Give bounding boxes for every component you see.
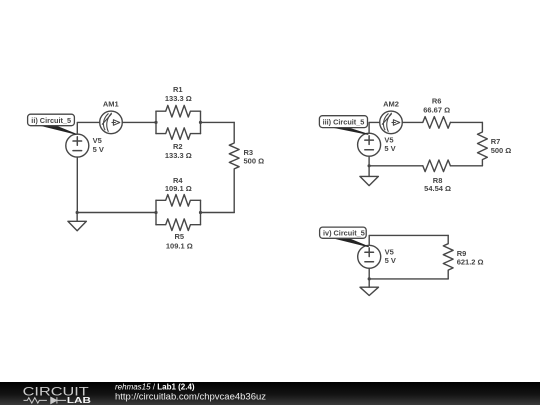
ground (iii) (360, 166, 379, 186)
wire V5(ii) bottom (76, 157, 78, 212)
wire R8 to junction (iii) (369, 165, 423, 167)
svg-text:V5: V5 (93, 136, 102, 145)
callout iii) Circuit_5 (319, 116, 368, 135)
resistor R8 (423, 160, 451, 172)
svg-text:iv) Circuit_5: iv) Circuit_5 (323, 229, 365, 238)
wire R3 bottom to R4R5 (201, 212, 235, 214)
wire V5(iv) bottom (368, 268, 370, 279)
ammeter AM2 (380, 111, 403, 134)
svg-text:109.1 Ω: 109.1 Ω (166, 242, 193, 251)
svg-text:V5: V5 (385, 247, 394, 256)
voltage source V5 (ii) (66, 134, 89, 157)
wire V5(ii) top to AM1 (77, 122, 99, 134)
svg-text:LAB: LAB (67, 395, 91, 405)
svg-text:R6: R6 (432, 96, 442, 105)
svg-text:V5: V5 (384, 135, 393, 144)
resistor R7 (478, 122, 488, 165)
callout ii) Circuit_5 (28, 114, 77, 134)
svg-text:http://circuitlab.com/chpvcae4: http://circuitlab.com/chpvcae4b36uz (115, 392, 266, 403)
footer bar (0, 382, 540, 405)
svg-text:R1: R1 (173, 85, 183, 94)
node right of R4R5 (199, 211, 202, 214)
ammeter AM1 (100, 111, 123, 134)
voltage source V5 (iii) (358, 133, 381, 156)
callout iv) Circuit_5 (320, 227, 369, 247)
svg-text:AM2: AM2 (383, 100, 399, 109)
resistor R9 (443, 235, 453, 279)
resistor R1 (top branch) (156, 105, 201, 133)
svg-text:133.3 Ω: 133.3 Ω (165, 94, 192, 103)
svg-text:R7: R7 (491, 137, 501, 146)
wire AM1 to R1R2 block (122, 121, 156, 123)
svg-text:109.1 Ω: 109.1 Ω (165, 184, 192, 193)
wire AM2 to R6 (402, 121, 423, 123)
svg-text:500 Ω: 500 Ω (491, 146, 512, 155)
svg-text:ii) Circuit_5: ii) Circuit_5 (31, 116, 71, 125)
svg-text:54.54 Ω: 54.54 Ω (424, 184, 451, 193)
svg-text:5 V: 5 V (384, 144, 395, 153)
junction node (iii) (368, 164, 371, 167)
wire V5(iii) bottom (368, 156, 370, 166)
svg-text:AM1: AM1 (103, 99, 119, 108)
node left of R1R2 (154, 121, 157, 124)
svg-text:R5: R5 (175, 232, 185, 241)
voltage source V5 (iv) (358, 245, 381, 268)
ground (ii) (68, 213, 87, 231)
svg-text:500 Ω: 500 Ω (244, 156, 265, 165)
svg-text:rehmas15 / Lab1 (2.4): rehmas15 / Lab1 (2.4) (115, 383, 195, 392)
svg-text:R2: R2 (173, 142, 183, 151)
wire R4R5 to ground rail (77, 212, 156, 214)
svg-text:5 V: 5 V (93, 145, 104, 154)
node right of R1R2 (199, 121, 202, 124)
wire V5(iii) top to AM2 (369, 122, 380, 133)
junction node (ii) (76, 211, 79, 214)
svg-text:621.2 Ω: 621.2 Ω (457, 257, 484, 266)
svg-text:133.3 Ω: 133.3 Ω (165, 151, 192, 160)
resistor R3 (229, 122, 239, 212)
resistor R2 (bottom branch) (156, 111, 201, 139)
junction node (iv) (368, 277, 371, 280)
logo resistor-diode line (24, 397, 67, 403)
wire R6 to R7 (450, 121, 482, 123)
resistor R5 (bottom branch) (156, 200, 201, 230)
wire R9 bottom to junction (iv) (369, 278, 448, 280)
wire R1R2 to R3 (201, 121, 235, 123)
node left of R4R5 (154, 211, 157, 214)
svg-text:iii) Circuit_5: iii) Circuit_5 (323, 118, 365, 127)
wire R7 bottom to R8 (450, 165, 482, 167)
svg-text:5 V: 5 V (385, 256, 396, 265)
resistor R6 (423, 117, 451, 129)
resistor R4 (top branch) (156, 195, 201, 225)
svg-text:66.67 Ω: 66.67 Ω (423, 105, 450, 114)
ground (iv) (360, 279, 379, 296)
wire V5(iv) top to R9 (369, 235, 448, 245)
